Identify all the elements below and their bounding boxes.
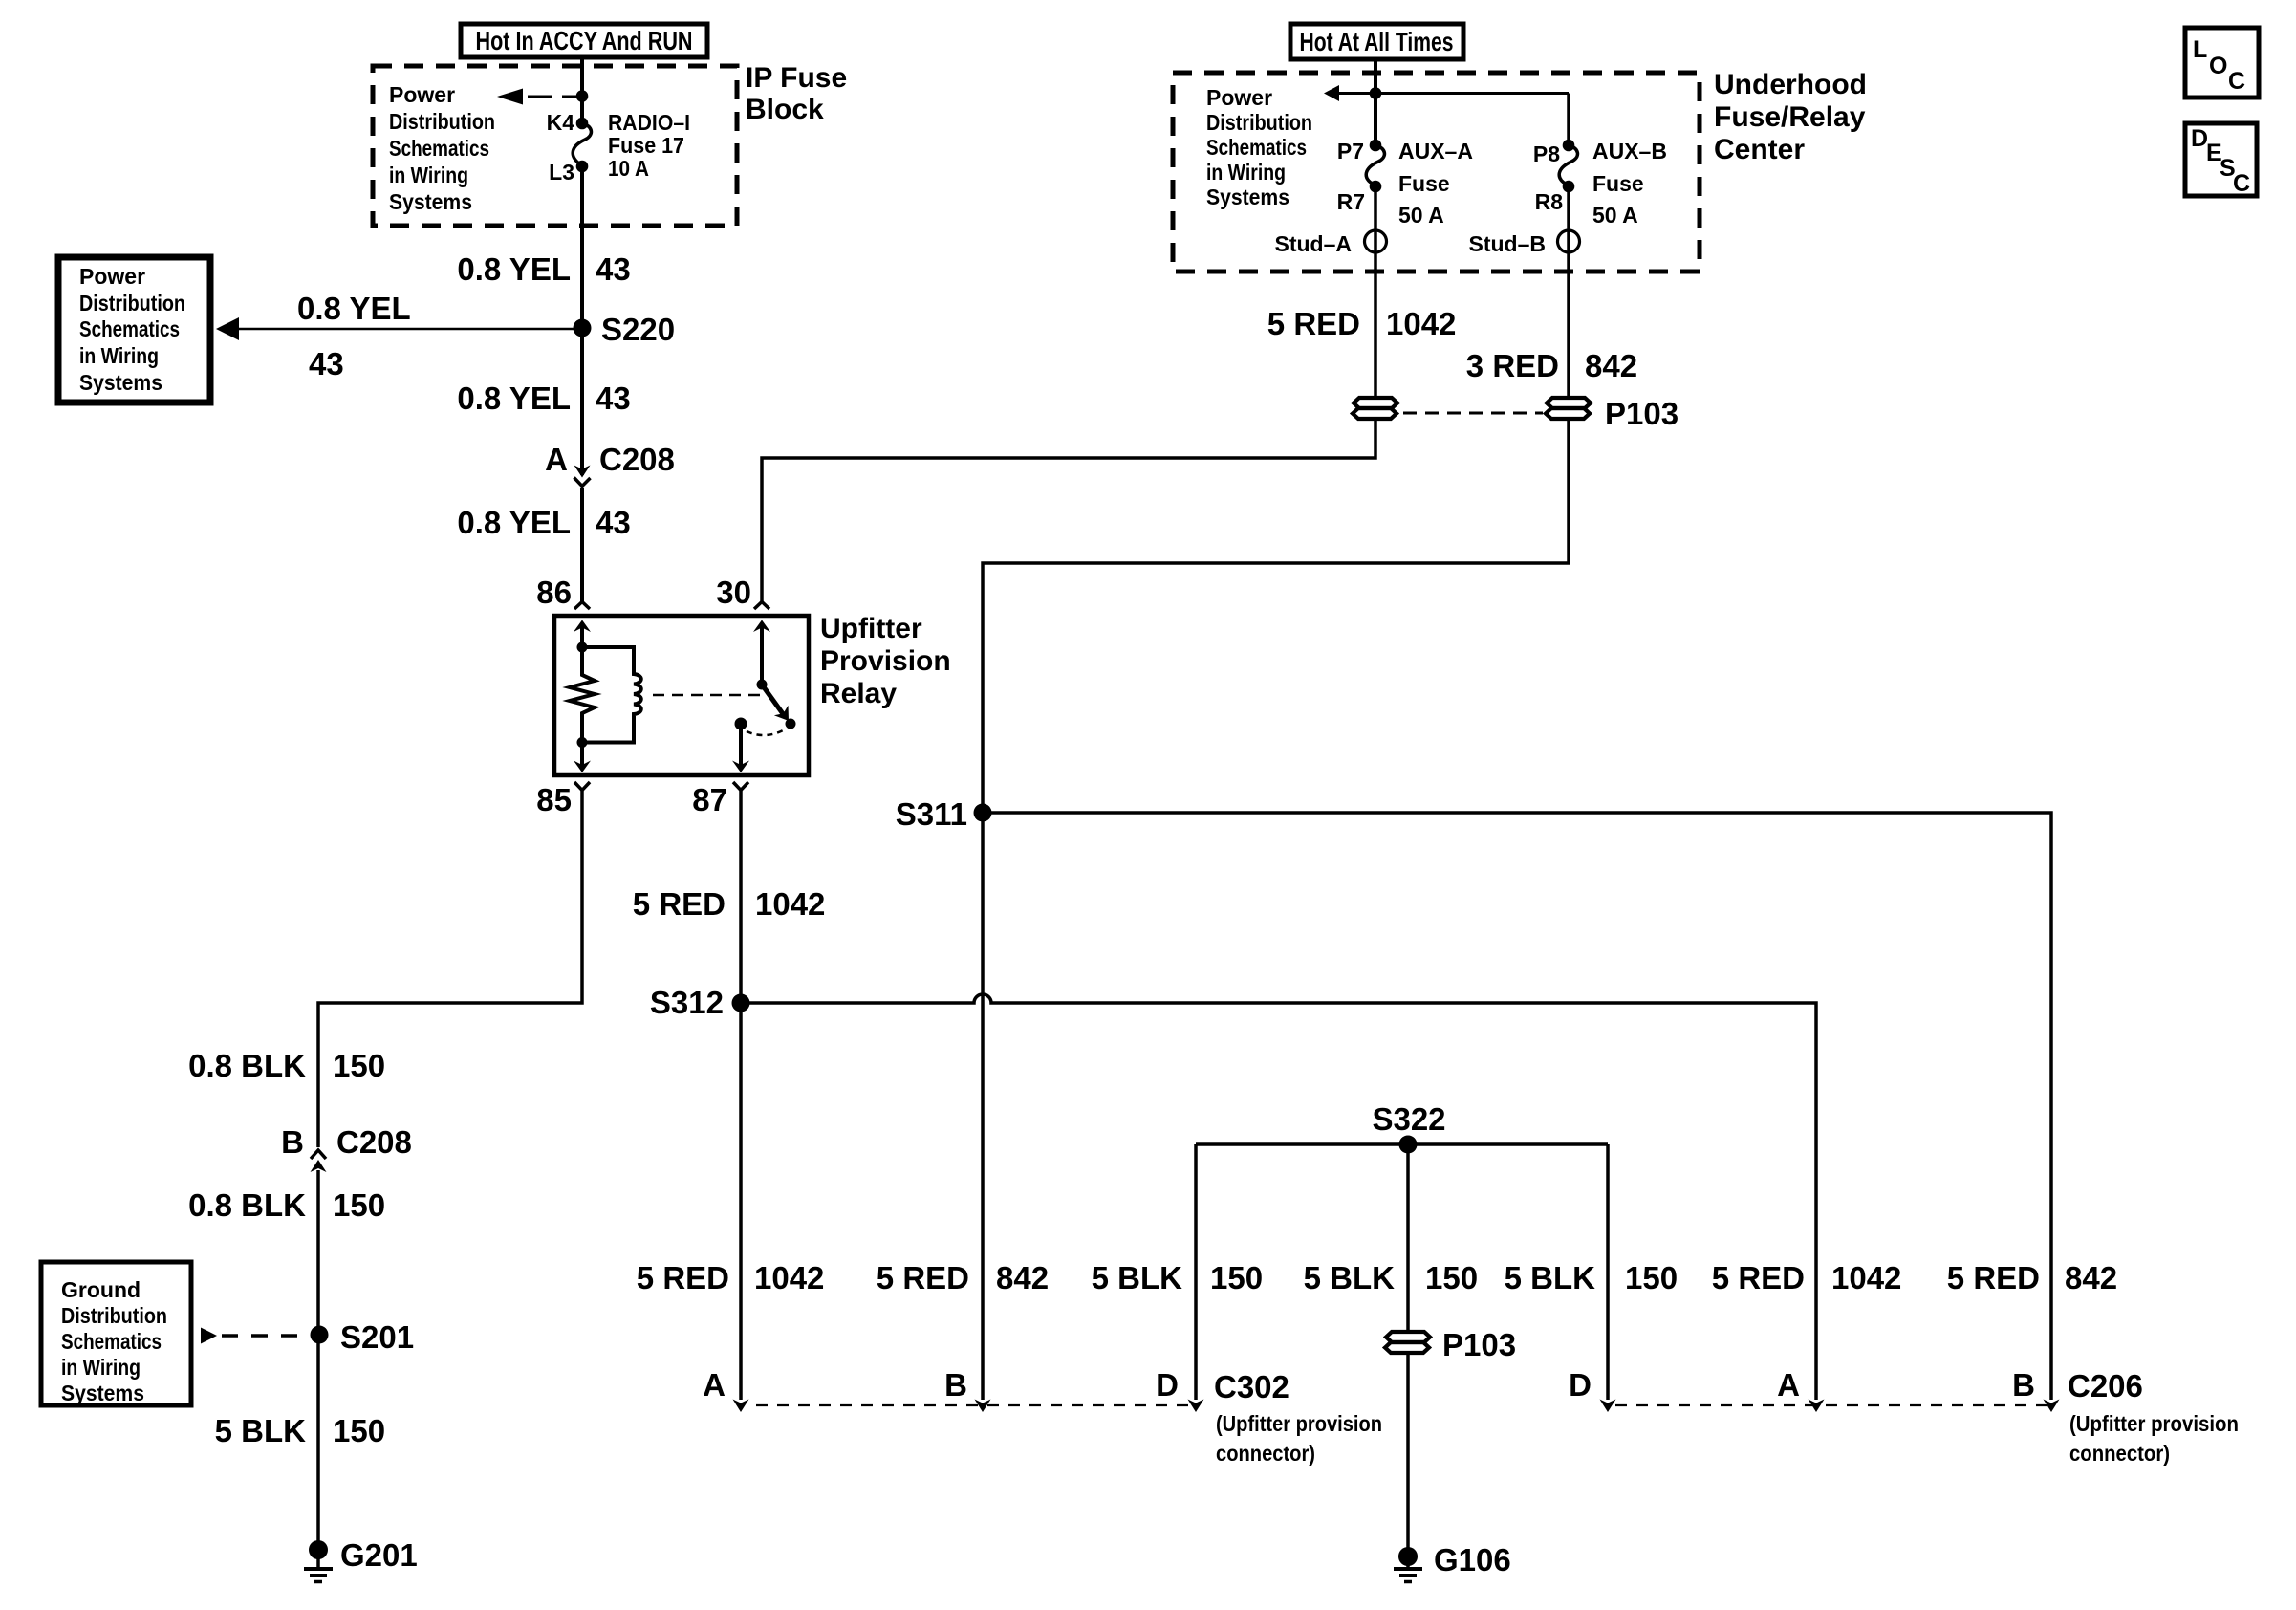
- wire: 5 BLK 150 branch down to C302 D: [1194, 1144, 1198, 1400]
- junction dot on feed wire: [576, 90, 589, 102]
- connector C208 pin B (in-line connector halves, upward): [311, 1150, 326, 1159]
- reference arrow from Ground Distribution box to S201 (dashed): [201, 1328, 217, 1344]
- wire: 5 BLK 150 from S322 down to P103 and G106: [1406, 1144, 1410, 1330]
- svg-text:C: C: [2228, 68, 2245, 95]
- svg-text:in Wiring: in Wiring: [61, 1355, 141, 1380]
- svg-text:G106: G106: [1434, 1542, 1511, 1577]
- svg-text:150: 150: [333, 1048, 385, 1083]
- svg-text:87: 87: [692, 782, 727, 817]
- svg-text:A: A: [545, 442, 568, 477]
- pin 86 terminal chevron: [574, 602, 590, 610]
- svg-text:Block: Block: [746, 94, 824, 125]
- svg-text:10 A: 10 A: [608, 156, 649, 181]
- dashed link between P103 halves: [1403, 412, 1543, 415]
- header box: Hot In ACCY And RUN: [461, 24, 707, 57]
- svg-text:A: A: [703, 1367, 726, 1403]
- svg-text:43: 43: [596, 381, 631, 416]
- wire from R7 through Stud-A down to P103: [1374, 186, 1377, 396]
- relay box: Upfitter Provision Relay: [554, 616, 809, 775]
- pass-through grommet P103 (ground): [1385, 1332, 1430, 1353]
- relay pin 86 internal arrow: [574, 620, 591, 633]
- svg-text:S201: S201: [340, 1319, 414, 1355]
- svg-text:AUX–B: AUX–B: [1592, 139, 1667, 163]
- svg-text:5 RED: 5 RED: [1712, 1260, 1805, 1295]
- svg-text:Center: Center: [1714, 134, 1805, 165]
- LOC reference box: [2185, 28, 2259, 98]
- splice S322 junction dot: [1399, 1136, 1418, 1154]
- svg-text:L: L: [2193, 36, 2207, 63]
- svg-text:0.8 YEL: 0.8 YEL: [457, 381, 571, 416]
- pin P8 dot: [1563, 140, 1575, 152]
- svg-text:Distribution: Distribution: [79, 291, 185, 315]
- svg-text:5 BLK: 5 BLK: [215, 1413, 307, 1448]
- svg-text:1042: 1042: [1386, 306, 1456, 341]
- svg-text:842: 842: [2065, 1260, 2117, 1295]
- relay pin 30 internal arrow: [753, 620, 770, 633]
- svg-text:L3: L3: [549, 160, 574, 185]
- svg-text:50 A: 50 A: [1398, 203, 1444, 228]
- junction dot on feed wire: [1370, 87, 1382, 99]
- relay mechanical link (dashed): [653, 694, 760, 697]
- svg-text:Distribution: Distribution: [61, 1303, 167, 1328]
- relay coil: [582, 647, 641, 743]
- pin R7 dot: [1370, 181, 1382, 193]
- svg-text:Fuse/Relay: Fuse/Relay: [1714, 101, 1866, 133]
- relay switch pivot dot: [757, 680, 768, 690]
- wire: 0.8 YEL 43 branch from S220 to Power Distribution box (arrow): [216, 317, 239, 340]
- svg-text:0.8 YEL: 0.8 YEL: [457, 505, 571, 540]
- svg-text:50 A: 50 A: [1592, 203, 1638, 228]
- svg-text:AUX–A: AUX–A: [1398, 139, 1473, 163]
- C302 dashed connector face: [756, 1404, 1192, 1406]
- svg-text:B: B: [281, 1124, 304, 1160]
- svg-text:Provision: Provision: [820, 645, 951, 677]
- svg-text:C206: C206: [2068, 1368, 2143, 1403]
- splice S220 junction dot: [574, 319, 592, 337]
- pin K4 dot: [576, 118, 589, 130]
- svg-text:150: 150: [1210, 1260, 1263, 1295]
- svg-text:C302: C302: [1214, 1369, 1289, 1404]
- pin A arrow (C206): [1809, 1400, 1825, 1413]
- DESC reference box: [2185, 123, 2257, 196]
- svg-text:C208: C208: [336, 1124, 412, 1160]
- splice S311 junction dot: [974, 804, 992, 822]
- svg-text:RADIO–I: RADIO–I: [608, 110, 690, 135]
- splice S201 junction dot: [311, 1326, 329, 1344]
- svg-text:B: B: [2012, 1367, 2035, 1403]
- svg-text:Hot In ACCY And RUN: Hot In ACCY And RUN: [476, 26, 693, 55]
- relay coil junction dot (bottom): [577, 737, 588, 748]
- header box: Hot At All Times: [1290, 24, 1463, 59]
- ground G106: [1398, 1547, 1418, 1566]
- wire: 3 RED 842 from P103 right down-left to S311: [983, 421, 1569, 1400]
- relay switch dashed arc: [747, 729, 785, 735]
- svg-text:5 RED: 5 RED: [1267, 306, 1360, 341]
- wire: 5 BLK 150 branch down to C206 D: [1606, 1144, 1610, 1400]
- svg-text:B: B: [944, 1367, 967, 1403]
- svg-text:Upfitter: Upfitter: [820, 613, 922, 644]
- relay pin 87 internal arrow: [739, 724, 743, 766]
- svg-text:Systems: Systems: [389, 189, 472, 214]
- svg-text:R8: R8: [1535, 189, 1564, 214]
- svg-text:Ground: Ground: [61, 1277, 141, 1302]
- svg-text:in Wiring: in Wiring: [389, 163, 468, 187]
- svg-text:C: C: [2233, 170, 2250, 197]
- svg-text:150: 150: [1425, 1260, 1478, 1295]
- svg-text:5 BLK: 5 BLK: [1304, 1260, 1396, 1295]
- svg-text:S311: S311: [896, 796, 967, 832]
- svg-text:C208: C208: [599, 442, 675, 477]
- reference arrow to Power Distribution Schematics (inside IP fuse block): [497, 89, 523, 105]
- pin R8 dot: [1563, 181, 1575, 193]
- svg-text:5 RED: 5 RED: [637, 1260, 729, 1295]
- wire: 5 BLK 150 from P103 down to G106: [1406, 1355, 1410, 1550]
- svg-text:Schematics: Schematics: [389, 136, 489, 161]
- svg-text:connector): connector): [2069, 1441, 2170, 1466]
- svg-text:(Upfitter provision: (Upfitter provision: [2069, 1411, 2239, 1436]
- svg-text:Fuse: Fuse: [1398, 171, 1450, 196]
- wire: 5 RED 842 branch from S311 to C206 B: [983, 813, 2051, 1400]
- svg-text:Systems: Systems: [61, 1381, 144, 1405]
- solid box: Ground Distribution Schematics in Wiring Systems: [41, 1262, 191, 1405]
- svg-text:5 RED: 5 RED: [877, 1260, 969, 1295]
- svg-text:842: 842: [1585, 348, 1637, 383]
- relay switch arm end dot: [786, 719, 796, 729]
- IP Fuse Block dashed box: [373, 66, 737, 226]
- svg-text:P103: P103: [1442, 1327, 1516, 1362]
- svg-text:D: D: [1569, 1367, 1592, 1403]
- svg-text:P7: P7: [1337, 139, 1364, 163]
- wire: 0.8 YEL 43 from C208 to relay pin 86: [580, 488, 584, 601]
- svg-text:R7: R7: [1337, 189, 1365, 214]
- wire: 5 BLK 150 ground bus from S322: [1196, 1142, 1608, 1146]
- pin P7 dot: [1370, 140, 1382, 152]
- svg-text:0.8 BLK: 0.8 BLK: [188, 1048, 306, 1083]
- svg-text:86: 86: [536, 575, 572, 610]
- relay resistor (zigzag): [570, 647, 595, 742]
- svg-text:Stud–B: Stud–B: [1469, 231, 1547, 256]
- svg-text:0.8 YEL: 0.8 YEL: [297, 291, 411, 326]
- svg-text:43: 43: [596, 251, 631, 287]
- svg-text:Schematics: Schematics: [61, 1329, 162, 1354]
- Stud-B terminal circle: [1558, 230, 1580, 252]
- svg-text:Fuse: Fuse: [1592, 171, 1644, 196]
- svg-text:Power: Power: [79, 264, 145, 289]
- Stud-A terminal circle: [1365, 230, 1387, 252]
- pin A arrow (C302): [733, 1400, 749, 1413]
- svg-text:P8: P8: [1533, 141, 1560, 166]
- wire: 5 RED 1042 branch from S312 to C206 A (with hop over 842 wire): [741, 994, 1816, 1400]
- ground G201: [309, 1540, 328, 1559]
- pin D arrow (C302): [1188, 1400, 1204, 1413]
- pin 30 terminal chevron: [754, 602, 769, 610]
- wire: 0.8 BLK 150 from C208 B down to S201 and G201: [316, 1170, 320, 1550]
- wire: 5 RED 1042 from relay pin 87 down to S312 and C302 A: [739, 791, 743, 1400]
- svg-text:S322: S322: [1372, 1101, 1445, 1137]
- svg-text:Stud–A: Stud–A: [1275, 231, 1353, 256]
- solid box: Power Distribution Schematics in Wiring Systems: [58, 257, 210, 402]
- relay pin 85 internal arrow: [580, 743, 584, 767]
- svg-text:P103: P103: [1605, 396, 1679, 431]
- relay switch arm: [762, 685, 784, 715]
- wire: 5 RED 1042 from P103 left down to relay pin 30: [762, 421, 1375, 601]
- wire: 0.8 BLK 150 from relay pin 85 down and left to C208 B: [318, 791, 582, 1147]
- svg-text:5 BLK: 5 BLK: [1505, 1260, 1596, 1295]
- wire from R8 through Stud-B down to P103: [1567, 186, 1570, 396]
- svg-text:(Upfitter provision: (Upfitter provision: [1216, 1411, 1382, 1436]
- pass-through grommet P103 (right): [1546, 398, 1591, 419]
- fuse AUX-B (element curve): [1559, 145, 1577, 186]
- svg-text:150: 150: [333, 1413, 385, 1448]
- svg-text:150: 150: [1625, 1260, 1678, 1295]
- relay common contact dot: [735, 718, 747, 730]
- svg-text:Systems: Systems: [79, 370, 162, 395]
- svg-text:in Wiring: in Wiring: [79, 343, 159, 368]
- svg-text:1042: 1042: [755, 886, 825, 922]
- svg-text:Power: Power: [1206, 85, 1272, 110]
- reference arrow to Power Distribution Schematics (underhood): [1324, 85, 1339, 101]
- svg-text:Fuse 17: Fuse 17: [608, 133, 684, 158]
- svg-text:43: 43: [596, 505, 631, 540]
- svg-text:30: 30: [716, 575, 751, 610]
- splice S312 junction dot: [732, 994, 750, 1012]
- C206 dashed connector face: [1615, 1404, 2054, 1406]
- relay coil junction dot (top): [577, 642, 588, 653]
- svg-text:5 RED: 5 RED: [633, 886, 726, 922]
- connector C208 pin A (in-line connector halves): [574, 466, 591, 478]
- wire: 0.8 YEL 43 from fuse L3 down to S220 and C208: [580, 166, 584, 475]
- pass-through grommet P103 (left): [1353, 398, 1397, 419]
- svg-text:5 RED: 5 RED: [1947, 1260, 2040, 1295]
- fuse RADIO-I Fuse 17 10 A (element curve): [573, 123, 591, 166]
- pin B arrow (C302): [975, 1400, 991, 1413]
- svg-text:A: A: [1777, 1367, 1800, 1403]
- svg-text:43: 43: [309, 346, 344, 381]
- wire: feed from Hot In ACCY And RUN into fuse K4: [580, 57, 584, 125]
- pin B arrow (C206): [2044, 1400, 2060, 1413]
- svg-text:connector): connector): [1216, 1441, 1315, 1466]
- svg-text:Distribution: Distribution: [1206, 110, 1312, 135]
- pin D arrow (C206): [1600, 1400, 1616, 1413]
- pin L3 dot: [576, 161, 589, 173]
- Underhood Fuse/Relay Center dashed box: [1173, 73, 1700, 272]
- svg-text:Schematics: Schematics: [79, 316, 180, 341]
- svg-text:S220: S220: [601, 312, 675, 347]
- svg-text:K4: K4: [547, 110, 575, 135]
- svg-text:IP Fuse: IP Fuse: [746, 62, 847, 94]
- pin 85 terminal chevron: [574, 782, 590, 791]
- svg-text:1042: 1042: [1831, 1260, 1901, 1295]
- svg-text:842: 842: [996, 1260, 1049, 1295]
- svg-text:Schematics: Schematics: [1206, 135, 1307, 160]
- svg-text:O: O: [2209, 53, 2227, 79]
- pin 87 terminal chevron: [733, 782, 748, 791]
- svg-text:1042: 1042: [754, 1260, 824, 1295]
- svg-text:Relay: Relay: [820, 678, 897, 709]
- svg-text:85: 85: [536, 782, 572, 817]
- wire: branch across to AUX-B fuse: [1339, 92, 1569, 95]
- svg-text:0.8 BLK: 0.8 BLK: [188, 1187, 306, 1223]
- wire: feed from Hot At All Times down to AUX-A fuse: [1374, 59, 1377, 147]
- svg-text:Distribution: Distribution: [389, 109, 495, 134]
- svg-text:3 RED: 3 RED: [1466, 348, 1559, 383]
- svg-text:Systems: Systems: [1206, 185, 1289, 209]
- svg-text:Hot At All Times: Hot At All Times: [1300, 27, 1454, 56]
- svg-text:0.8 YEL: 0.8 YEL: [457, 251, 571, 287]
- svg-text:5 BLK: 5 BLK: [1092, 1260, 1183, 1295]
- svg-text:Underhood: Underhood: [1714, 69, 1867, 100]
- svg-text:in Wiring: in Wiring: [1206, 160, 1286, 185]
- svg-text:G201: G201: [340, 1537, 418, 1573]
- svg-text:150: 150: [333, 1187, 385, 1223]
- fuse AUX-A (element curve): [1366, 145, 1384, 186]
- svg-text:Power: Power: [389, 82, 455, 107]
- svg-text:S312: S312: [650, 985, 724, 1020]
- svg-text:D: D: [1156, 1367, 1179, 1403]
